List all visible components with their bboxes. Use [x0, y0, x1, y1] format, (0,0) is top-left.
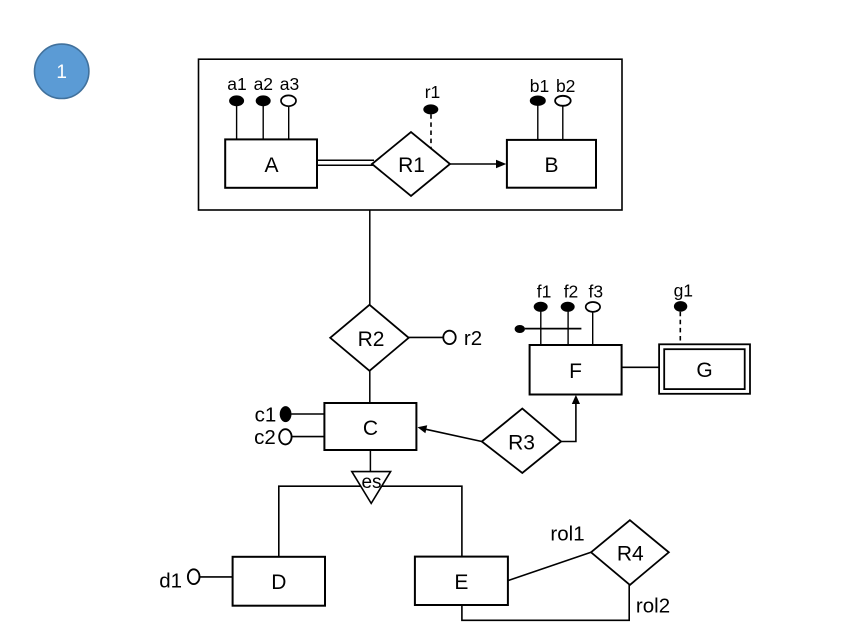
wire R2 to C: [369, 371, 371, 403]
svg-text:1: 1: [56, 62, 67, 83]
attribute r1 (dashed): [423, 82, 440, 149]
svg-text:d1: d1: [159, 570, 182, 593]
svg-text:E: E: [454, 571, 468, 594]
svg-text:a2: a2: [254, 74, 273, 94]
svg-text:a1: a1: [227, 74, 246, 94]
attribute g1 (dashed): [674, 281, 693, 345]
isa triangle es: [352, 472, 391, 504]
svg-text:r2: r2: [464, 327, 482, 350]
relationship R4: [591, 520, 669, 585]
entity B: [507, 140, 596, 188]
attribute c2: [254, 426, 324, 449]
relationship R2: [330, 305, 409, 371]
relationship R3: [482, 409, 561, 473]
svg-text:a3: a3: [280, 74, 299, 94]
key constraint line over f1 f2: [515, 325, 582, 333]
frame (aggregation box): [199, 59, 623, 210]
svg-text:rol2: rol2: [636, 595, 670, 618]
svg-text:B: B: [544, 154, 558, 177]
wire E to R4 (rol1): [508, 552, 591, 580]
weak entity G (double rectangle): [659, 344, 750, 394]
svg-text:R2: R2: [358, 328, 385, 351]
attribute a2: [254, 74, 273, 139]
svg-text:C: C: [363, 417, 378, 440]
attribute b1: [530, 76, 549, 140]
attribute d1: [159, 569, 232, 592]
svg-text:r1: r1: [425, 82, 441, 102]
wire A to R1 (double line): [317, 160, 376, 165]
svg-text:R3: R3: [508, 432, 535, 455]
wire R3 to F (arrow up): [561, 395, 580, 442]
wire C to isa triangle: [369, 450, 371, 472]
wire frame to R2: [369, 210, 371, 306]
svg-text:G: G: [696, 359, 712, 382]
attribute a1: [227, 74, 246, 139]
wire isa branch to D and E: [279, 486, 462, 557]
svg-text:F: F: [569, 360, 582, 383]
entity E: [415, 557, 508, 605]
entity D: [233, 557, 325, 606]
svg-text:es: es: [361, 472, 381, 493]
slide number badge 1: [35, 44, 89, 98]
attribute b2: [555, 76, 575, 140]
svg-text:rol1: rol1: [550, 523, 584, 546]
wire R1 to B (arrow): [450, 160, 506, 169]
wire R3 to C (arrow): [418, 425, 482, 441]
attribute f3: [586, 282, 603, 346]
relationship R1: [372, 132, 450, 196]
attribute r2: [409, 327, 482, 350]
svg-text:b2: b2: [556, 76, 575, 96]
entity F: [530, 345, 622, 395]
svg-text:c2: c2: [254, 426, 276, 449]
entity C: [324, 403, 416, 450]
svg-text:f3: f3: [588, 282, 603, 302]
svg-text:g1: g1: [674, 281, 693, 301]
svg-text:f2: f2: [564, 282, 579, 302]
wire E bottom to R4 (rol2): [462, 585, 629, 620]
svg-text:f1: f1: [537, 282, 552, 302]
attribute f2: [561, 282, 579, 346]
svg-text:b1: b1: [530, 76, 549, 96]
svg-text:c1: c1: [255, 403, 277, 426]
svg-text:R1: R1: [398, 154, 425, 177]
svg-text:D: D: [271, 571, 286, 594]
svg-text:A: A: [264, 154, 278, 177]
attribute c1: [255, 403, 325, 426]
attribute f1: [534, 282, 552, 346]
attribute a3: [280, 74, 299, 139]
entity A: [225, 139, 317, 187]
svg-text:R4: R4: [617, 543, 644, 566]
wire F to G: [622, 366, 660, 368]
